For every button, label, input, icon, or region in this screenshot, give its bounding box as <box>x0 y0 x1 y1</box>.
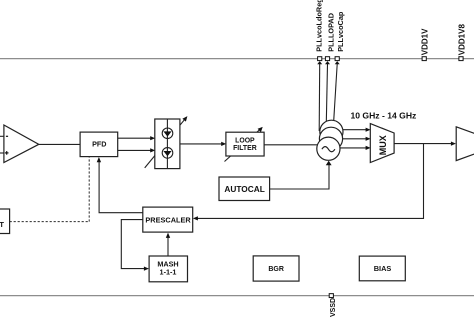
svg-text:AUTOCAL: AUTOCAL <box>224 184 264 194</box>
svg-text:10 GHz - 14 GHz: 10 GHz - 14 GHz <box>350 111 416 121</box>
svg-text:BGR: BGR <box>268 266 284 273</box>
svg-text:PLLLOPAD: PLLLOPAD <box>326 13 335 52</box>
svg-text:LOOP: LOOP <box>235 137 255 144</box>
svg-text:FILTER: FILTER <box>233 145 257 152</box>
svg-text:VSSD: VSSD <box>330 298 337 317</box>
svg-text:PRESCALER: PRESCALER <box>145 215 191 224</box>
svg-text:MUX: MUX <box>378 135 388 155</box>
svg-text:PFD: PFD <box>92 140 106 149</box>
svg-text:VDD1V8: VDD1V8 <box>458 24 467 56</box>
svg-text:BIAS: BIAS <box>374 264 392 273</box>
svg-text:PLLvcoCap: PLLvcoCap <box>336 11 345 52</box>
svg-text:PLLvcoLdoReg: PLLvcoLdoReg <box>314 0 323 52</box>
svg-text:T: T <box>0 220 4 229</box>
svg-text:VDD1V: VDD1V <box>420 28 429 55</box>
svg-text:1-1-1: 1-1-1 <box>160 268 177 277</box>
